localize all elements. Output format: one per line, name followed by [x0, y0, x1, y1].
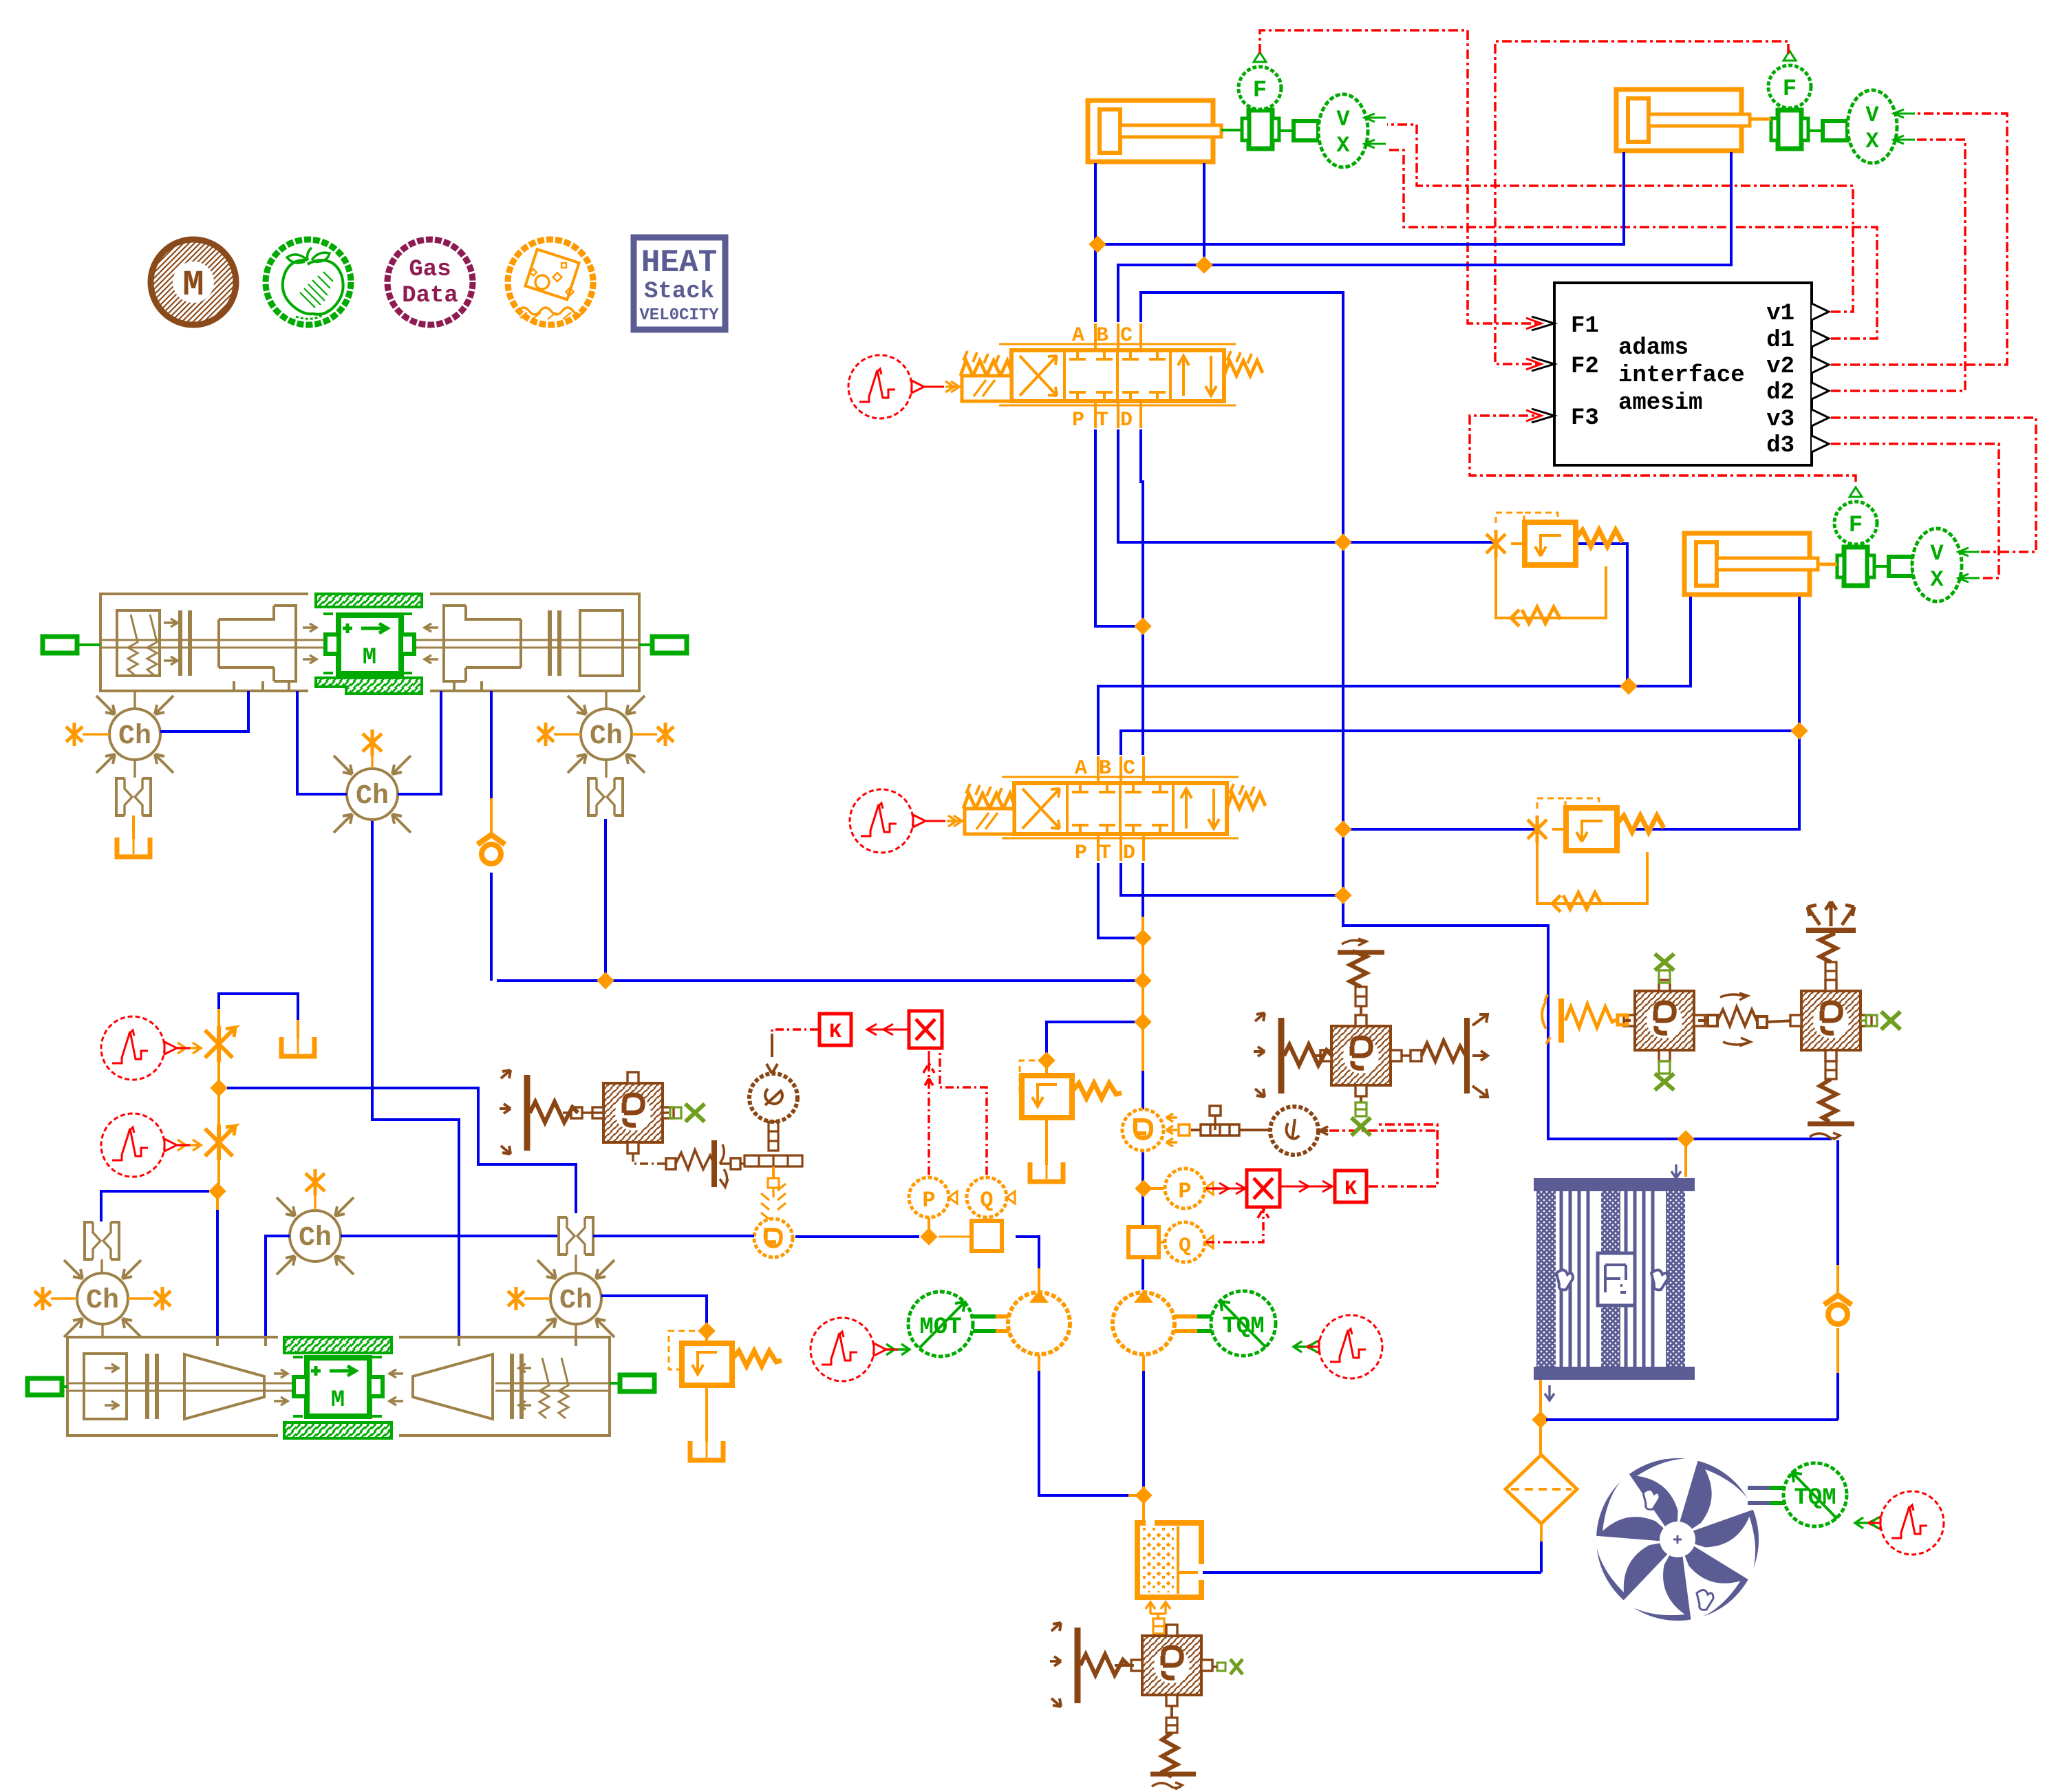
force sensor F3 — [1834, 487, 1877, 544]
wire upper Ch3 riser down to long line — [604, 819, 607, 981]
coupler spring between MB1 MB2 — [1698, 1007, 1796, 1027]
green end connector right — [652, 637, 687, 653]
signal source S4 — [1307, 1315, 1382, 1378]
wire relief RV2 left port to riser — [1343, 828, 1535, 831]
wire supply line into FM1 from left — [939, 1236, 972, 1238]
mass block MB1 — [1624, 980, 1705, 1061]
brown torque pipe T1 — [1191, 1106, 1268, 1135]
wire P1 to X1b (red dash) — [923, 1063, 934, 1175]
right piston and spring — [512, 1354, 522, 1419]
wire C1 left junction to C2 left port — [1104, 152, 1624, 244]
valve V2 body — [1014, 783, 1227, 834]
svg-text:d1: d1 — [1766, 328, 1794, 354]
valve V2 crossed arrows section — [1022, 789, 1060, 829]
wire X1b to K1 (red) — [867, 1024, 908, 1035]
CH3 right orifice X — [657, 723, 674, 746]
RV1 pilot loop — [1496, 557, 1606, 618]
svg-text:T: T — [1099, 842, 1111, 865]
svg-text:d3: d3 — [1766, 433, 1794, 459]
icon HEAT Stack VELOCITY box — [634, 237, 725, 330]
valve V2 left spring — [963, 793, 1014, 809]
svg-text:TQM: TQM — [1222, 1314, 1264, 1340]
junction into cooler — [1677, 1130, 1694, 1147]
spool block CF — [1320, 1015, 1402, 1096]
orifice block OB1 — [592, 1072, 674, 1153]
valve V1 through arrows section 4 — [1178, 356, 1217, 396]
wire CH6 right port to relief RV4 — [601, 1296, 707, 1327]
tank TK3 below BR3 — [132, 815, 135, 839]
valve V2 through arrows section 4 — [1181, 789, 1219, 829]
svg-text:amesim: amesim — [1618, 390, 1702, 416]
CH5 top orifice X — [306, 1169, 325, 1195]
orifice bracket BR2 on supply line — [559, 1217, 593, 1255]
wire N1 to OX2 — [217, 1089, 220, 1124]
TH1 bottom spring to ground — [1170, 1706, 1173, 1718]
svg-text:v3: v3 — [1766, 407, 1794, 433]
svg-text:D: D — [1120, 409, 1133, 432]
green end connector left (lower) — [28, 1378, 62, 1395]
bracket BR4 below CH3 — [605, 760, 607, 778]
chamber CH5 (middle) — [277, 1197, 354, 1274]
filter FL1 — [1505, 1455, 1577, 1524]
svg-text:P: P — [922, 1188, 935, 1213]
valve V2 port stubs — [1098, 756, 1144, 783]
wire S7 to orifice OX2 — [177, 1140, 201, 1151]
sensor P1 circle — [909, 1177, 949, 1217]
green end connector right (lower) — [620, 1375, 654, 1391]
tank TK2 (upper left) with U pipe — [217, 1009, 220, 1027]
svg-text:VEL0CITY: VEL0CITY — [639, 306, 719, 325]
right cone — [413, 1354, 493, 1419]
svg-text:v2: v2 — [1766, 354, 1794, 380]
svg-text:C: C — [1120, 324, 1133, 348]
VX3 velocity transducer — [1912, 529, 1980, 601]
CF top rod and spring to wall — [1360, 1006, 1362, 1015]
wire valve V1 C up over to main return riser — [1141, 292, 1832, 1139]
wire valve V2 T down right to riser — [1121, 863, 1338, 895]
TH1 left wall and spring — [1050, 1623, 1128, 1707]
chamber CH2 — [334, 756, 411, 833]
svg-text:B: B — [1099, 757, 1111, 780]
valve V1 crossed arrows section — [1020, 356, 1057, 396]
signal source S7 — [101, 1113, 177, 1177]
gain K2 — [1335, 1171, 1367, 1202]
svg-text:T: T — [1096, 409, 1108, 432]
valve V1 rails — [999, 344, 1236, 405]
wire K2 gain to W1 and CF pilot (red dash) — [1369, 1124, 1437, 1186]
valve V2 right spring — [1227, 793, 1265, 809]
svg-text:F2: F2 — [1571, 354, 1599, 380]
right cylinder mirrored — [580, 610, 623, 676]
wire valve V2 A to C3 left chamber — [1098, 597, 1691, 755]
pump P2 supply sensors: flow meter FM2 — [1128, 1227, 1159, 1257]
svg-text:Stack: Stack — [644, 279, 714, 305]
svg-text:HEAT: HEAT — [641, 245, 717, 281]
wire Q1 to X1b (red dash) — [940, 1052, 987, 1175]
MB1 left preload spring (orange) — [1542, 994, 1550, 1044]
wire CQ1 to PQ node and pump P2 — [1142, 1151, 1144, 1290]
TH1 right green port — [1217, 1659, 1243, 1674]
check valve CK2 — [1824, 1295, 1852, 1324]
mass block MB2 — [1790, 980, 1872, 1061]
wire OX1 to node N1 — [217, 1062, 220, 1087]
RV1 inlet X — [1486, 530, 1505, 557]
sensor Q2 circle — [1165, 1222, 1205, 1262]
wire bypass across cooler — [1546, 1373, 1838, 1420]
torque meter TQM1 — [1211, 1291, 1276, 1356]
shaft P2 to TQM1 — [1175, 1316, 1212, 1331]
force block 3 — [1837, 547, 1874, 586]
cylinder C1 — [1088, 100, 1221, 162]
orifice bracket BR1 — [85, 1222, 119, 1259]
wire d3 to VX3 — [1831, 444, 1999, 578]
svg-text:B: B — [1096, 324, 1108, 348]
wire pump P2 down — [1142, 1355, 1145, 1371]
HX1 outlet — [1539, 1380, 1542, 1418]
CH3 left orifice X — [537, 723, 554, 746]
wire OX2 to node N2 — [217, 1160, 220, 1190]
wire v2 to VX2 — [1831, 114, 2007, 365]
brown speed source circle W1 — [1270, 1107, 1328, 1155]
wire HX1 outlet down to filter — [1539, 1420, 1542, 1455]
signal source S3 — [811, 1318, 886, 1381]
svg-text:adams: adams — [1618, 335, 1689, 361]
sensor Q1 circle — [967, 1177, 1007, 1217]
wire F3 sensor to adams F3 — [1470, 416, 1856, 482]
signal source S1 — [848, 355, 924, 418]
chamber CH3 — [605, 691, 607, 709]
green electromagnet hatch top (lower) — [284, 1337, 392, 1353]
force block 2 — [1771, 110, 1808, 149]
icon M mechanical — [151, 239, 236, 325]
svg-text:Data: Data — [402, 283, 458, 309]
green electromagnet hatch bottom (lower) — [284, 1422, 392, 1438]
heat exchanger HX1 — [1534, 1178, 1695, 1380]
valve V1 left spring — [961, 361, 1011, 376]
wire K1 to speed dial (red/brown) — [772, 1030, 818, 1034]
force sensor F1 block — [1242, 110, 1279, 149]
wire F2 sensor to adams F2 — [1495, 41, 1788, 364]
valve V1 port stubs — [1095, 323, 1141, 350]
wire CH6 down to manifold — [575, 1324, 577, 1336]
OB1 right green X — [663, 1111, 669, 1113]
svg-text:M: M — [331, 1387, 345, 1414]
wire F1 sensor to adams F1 — [1260, 30, 1540, 323]
wire N2 branch left (blue) — [101, 1191, 209, 1222]
arrow into F1 — [1526, 318, 1541, 329]
wire valve V2 P down to main node — [1098, 863, 1137, 938]
svg-text:A: A — [1075, 757, 1087, 780]
svg-text:P: P — [1178, 1179, 1191, 1204]
chamber CH1 — [133, 691, 136, 709]
plunger T left — [219, 606, 274, 681]
variable orifice OX1 — [205, 1026, 235, 1062]
cylinder C3 — [1684, 533, 1818, 595]
svg-text:TQM: TQM — [1794, 1485, 1836, 1511]
thermal capacity block TH1 — [1131, 1625, 1212, 1706]
force sensor F1 — [1239, 52, 1281, 109]
wire diamond CK1 branch down — [490, 873, 493, 981]
pump P1 — [1008, 1290, 1070, 1354]
torque meter TQM2 — [1783, 1463, 1847, 1526]
wire TK1 to cooler return (blue) — [1203, 1571, 1541, 1574]
motor block M1 — [325, 615, 414, 674]
MB2 bottom spring to ground — [1825, 1061, 1836, 1079]
cylinder C2 — [1616, 89, 1750, 151]
rod to VX1 — [1279, 129, 1318, 132]
svg-text:interface: interface — [1618, 363, 1745, 389]
shaft fan to TQM2 — [1748, 1488, 1785, 1503]
wire CH2 right port up — [398, 691, 441, 794]
valve V1 closed T ports section 3 — [1122, 350, 1166, 401]
multiplier X1b — [909, 1011, 942, 1048]
wire S2 to V2 — [925, 820, 945, 822]
valve V1 right spring — [1224, 361, 1263, 376]
icon Gas Data (maroon) — [387, 239, 473, 325]
piston plates — [180, 610, 190, 676]
CH4 side orifices X — [34, 1287, 51, 1310]
valve V2 rails — [1002, 777, 1239, 838]
CH2 top orifice X — [363, 729, 382, 756]
sensor P2 circle — [1165, 1169, 1205, 1208]
wire CH5 right port to supply line — [341, 1235, 557, 1237]
svg-text:A: A — [1072, 324, 1084, 348]
wire v3 to VX3 — [1831, 418, 2036, 552]
icon apple (green) — [266, 239, 351, 325]
signal source S2 — [850, 789, 925, 853]
MB1 green X bottom — [1659, 1061, 1670, 1074]
CF left wall and spring — [1254, 1013, 1332, 1097]
bottom ports notches — [234, 681, 482, 691]
wire check branch from manifold — [490, 691, 493, 798]
wire pump P1 down and over — [1038, 1355, 1040, 1371]
bracket BR3 below CH1 — [133, 760, 136, 778]
chamber CH4 — [64, 1260, 141, 1337]
signal source S6 — [101, 1016, 177, 1080]
wire S3 to MOT — [886, 1344, 910, 1355]
MB2 right green X — [1861, 1015, 1877, 1026]
MB2 top spring to exhaust — [1825, 962, 1836, 980]
svg-text:F1: F1 — [1571, 313, 1599, 339]
wire valve V1 D down to valve V2 C — [1141, 429, 1143, 755]
wire X2b to K2 (red) — [1281, 1181, 1332, 1192]
valve V1 body — [1011, 350, 1224, 401]
wire Q2 to X2b (red dash) — [1206, 1208, 1269, 1242]
OB1 left wall spring — [500, 1070, 578, 1154]
wire C1 right port tee — [1203, 163, 1205, 265]
multiplier X2b — [1247, 1170, 1280, 1207]
wire S6 to orifice OX1 — [177, 1043, 201, 1054]
wire C3 right down to relief RV2 — [1635, 731, 1799, 829]
RV2 pilot loop — [1537, 843, 1647, 904]
wire upper chamber CH2 long drop — [372, 820, 459, 1336]
CH1 left orifice X — [66, 723, 83, 746]
wire N2 to lower manifold — [216, 1193, 219, 1210]
wire valve V2 D main pressure line down — [1142, 915, 1144, 1072]
RV2 inlet X — [1528, 815, 1547, 843]
left spring stack — [128, 615, 157, 675]
brown tee T2 — [744, 1155, 802, 1166]
svg-text:F3: F3 — [1571, 405, 1599, 431]
motor block M2 — [294, 1358, 383, 1416]
wire filter to tank return — [1540, 1524, 1543, 1542]
wire long horizontal to CF node — [497, 979, 1143, 982]
wire d2 to VX2 — [1831, 140, 1965, 391]
wire main node to relief RV3 branch — [1047, 1022, 1137, 1074]
wire BR1 to chamber CH4 — [100, 1259, 103, 1273]
VX1 velocity transducer — [1318, 94, 1386, 167]
breather arrows below TK1 — [1146, 1602, 1170, 1619]
junction dots on trunk — [1089, 235, 1106, 253]
rod to VX3 — [1874, 565, 1914, 568]
gain K1 — [819, 1014, 851, 1045]
wire valve V1 T down and right to relief RV1 — [1118, 429, 1497, 542]
flow meter FM1 on supply line — [972, 1221, 1002, 1251]
wire d1 to VX1 — [1387, 150, 1877, 339]
signal source S5 — [1868, 1491, 1944, 1555]
left cone — [184, 1354, 264, 1419]
VX2 velocity transducer — [1847, 90, 1915, 163]
manifold body outline — [100, 594, 172, 691]
svg-text:Q: Q — [1179, 1235, 1191, 1258]
svg-text:v1: v1 — [1766, 301, 1794, 327]
pump P2 — [1113, 1290, 1175, 1354]
green end connector left — [43, 637, 77, 653]
reservoir tank TK1 — [1137, 1523, 1201, 1597]
svg-text:P: P — [1075, 842, 1087, 865]
fan blades — [1578, 1436, 1781, 1636]
valve V2 closed T ports section 3 — [1125, 783, 1168, 834]
icon particles (orange) — [508, 239, 593, 325]
valve V1 closed T ports section 2 — [1069, 350, 1113, 401]
chamber CH6 — [537, 1260, 614, 1337]
check valve CK1 — [478, 835, 505, 864]
flow sensor CQ2 on supply line — [754, 1166, 793, 1257]
wire valve V2 B to C3 right chamber — [1121, 597, 1799, 755]
wire node N1 branch right (blue) — [227, 1088, 576, 1213]
motor MOT — [908, 1292, 973, 1356]
svg-text:C: C — [1123, 757, 1135, 780]
svg-text:D: D — [1123, 842, 1135, 865]
wire pump P1 riser up to flow meter — [1038, 1268, 1040, 1292]
wire CH5 left port down to manifold — [266, 1236, 290, 1336]
wire C1 left port to valve V1 A — [1094, 163, 1097, 322]
svg-text:P: P — [1072, 409, 1084, 432]
wire S1 to V1 — [924, 386, 944, 388]
wire CH1 right port up — [160, 691, 248, 732]
shaft MOT to pump P1 — [973, 1316, 1011, 1331]
wire CH4 to manifold — [101, 1324, 103, 1336]
svg-text:Gas: Gas — [409, 257, 451, 283]
rod to VX2 — [1808, 129, 1847, 132]
green electromagnet hatch top — [316, 594, 422, 607]
svg-text:M: M — [363, 645, 376, 671]
variable orifice OX2 — [205, 1124, 235, 1160]
wire valve V1 P down to main node — [1095, 429, 1135, 626]
wire valve V1 B up and across to C2 right port — [1118, 152, 1731, 322]
wire v1 to VX1 — [1387, 125, 1853, 312]
CH6 left orifice X — [508, 1287, 524, 1310]
wire BR2 down to chamber CH6 — [575, 1255, 577, 1272]
OB1 bottom dash link to damper — [633, 1153, 666, 1164]
CF bottom green port — [1360, 1096, 1362, 1102]
MB1 green X top — [1655, 954, 1674, 970]
wire relief RV1 right port to A-side — [1578, 544, 1627, 685]
svg-text:d2: d2 — [1766, 380, 1794, 406]
svg-text:Q: Q — [980, 1188, 993, 1213]
valve V1 solenoid box — [962, 376, 1011, 401]
valve V2 solenoid box — [965, 809, 1014, 834]
green electromagnet hatch bottom — [316, 678, 422, 694]
wire CH2 left port up — [297, 691, 347, 794]
rod PH1 down to tee — [769, 1122, 778, 1151]
power dial PH1 — [749, 1074, 797, 1122]
wire P2 to X2b (red) — [1206, 1183, 1245, 1194]
svg-text:M: M — [182, 265, 204, 306]
relief valve RV4 — [669, 1322, 782, 1460]
CF right rod spring to arrow wall — [1402, 1050, 1422, 1061]
valve V2 closed T ports section 2 — [1072, 783, 1115, 834]
force sensor F2 — [1768, 51, 1811, 108]
